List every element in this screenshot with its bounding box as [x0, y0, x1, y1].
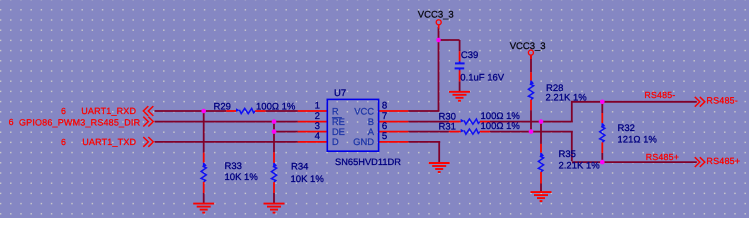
svg-text:R33: R33: [225, 161, 242, 172]
wire R32 bottom lead: [601, 153, 603, 162]
label R28: [546, 83, 563, 94]
capacitor C39: [455, 51, 465, 81]
pin name A: [368, 126, 375, 137]
port GPIO86_PWM3_RS485_DIR chevrons: [143, 117, 153, 127]
ground (below R34): [264, 204, 285, 213]
ground (below R35): [531, 192, 552, 201]
pin 4 lead: [298, 141, 328, 143]
value 100Ω 1% (R31): [481, 121, 521, 132]
resistor R29: [226, 108, 265, 113]
label U7: [334, 88, 346, 99]
wire row2 to R34: [273, 122, 275, 153]
svg-text:2.21K 1%: 2.21K 1%: [546, 93, 588, 104]
svg-text:R35: R35: [559, 149, 576, 160]
pin name R: [332, 106, 339, 117]
svg-text:GPIO86_PWM3_RS485_DIR: GPIO86_PWM3_RS485_DIR: [19, 117, 141, 127]
pin number 4: [315, 131, 321, 142]
wire VCC junction to C39: [438, 40, 460, 51]
svg-text:RS485+: RS485+: [646, 152, 679, 162]
port GPIO86_PWM3_RS485_DIR text: [19, 117, 141, 127]
wire C39 to ground: [459, 81, 461, 91]
power VCC3_3 (1) circle: [436, 20, 441, 29]
power VCC3_3 (2) circle: [528, 50, 533, 59]
value 100Ω 1% (R30): [481, 111, 521, 122]
label R31: [439, 122, 456, 133]
port UART1_RXD text: [81, 106, 136, 116]
wire R35 to ground: [540, 184, 542, 192]
svg-text:R31: R31: [439, 122, 456, 133]
value 121Ω 1% (R32): [618, 134, 658, 145]
label SN65HVD11DR: [335, 157, 401, 167]
svg-text:10K 1%: 10K 1%: [225, 172, 259, 183]
junction RS485-/R32: [600, 100, 605, 105]
svg-text:UART1_RXD: UART1_RXD: [81, 106, 136, 116]
junction row2/R34: [272, 119, 277, 124]
junction RS485+/R32: [600, 160, 605, 165]
pin 8 lead: [379, 110, 409, 112]
wire R34 to ground: [273, 193, 275, 203]
value 2.21K 1% (R28): [546, 93, 588, 104]
svg-text:R29: R29: [214, 101, 231, 112]
port RS485- text: [706, 96, 738, 106]
net label RS485-: [644, 90, 675, 100]
value 10K 1% (R33): [225, 172, 259, 183]
svg-text:C39: C39: [461, 50, 478, 61]
pin 3 lead: [298, 131, 328, 133]
resistor R28: [528, 72, 534, 110]
svg-text:5: 5: [382, 131, 387, 142]
svg-text:RS485-: RS485-: [706, 96, 738, 106]
power VCC3_3 (1) label: [418, 10, 454, 21]
wire pin6 to R31: [408, 131, 449, 133]
svg-text:6: 6: [61, 106, 66, 116]
svg-text:4: 4: [315, 131, 321, 142]
svg-text:VCC3_3: VCC3_3: [510, 41, 546, 52]
power VCC3_3 (2) label: [510, 41, 546, 52]
ground (below R33): [193, 204, 214, 213]
svg-text:0.1uF 16V: 0.1uF 16V: [460, 72, 504, 83]
wire pin5 to ground: [408, 142, 440, 163]
wire R32 top lead: [601, 102, 603, 113]
label R30: [439, 112, 456, 123]
wire row2 to R35: [540, 122, 542, 144]
svg-text:RS485+: RS485+: [706, 156, 740, 166]
svg-text:GND: GND: [353, 136, 374, 147]
pin 7 lead: [379, 121, 409, 123]
port UART1_TXD chevrons: [143, 137, 153, 147]
pin 2 lead: [298, 121, 328, 123]
wire R31 to jog (row3): [490, 131, 573, 133]
resistor R30: [449, 119, 490, 124]
pin number 3: [315, 121, 320, 132]
wire RS485_DIR net (row 2): [155, 121, 298, 123]
value 2.21K 1% (R35): [559, 160, 601, 171]
wire VCC3_3 vertical rail: [438, 27, 440, 111]
svg-text:SN65HVD11DR: SN65HVD11DR: [335, 157, 401, 167]
resistor R31: [449, 129, 490, 134]
junction row1/R33: [201, 109, 206, 114]
resistor R32: [600, 113, 606, 153]
wire pin7 to R30: [408, 121, 449, 123]
svg-text:2.21K 1%: 2.21K 1%: [559, 160, 601, 171]
port RS485+ chevrons: [695, 157, 705, 167]
svg-text:VCC3_3: VCC3_3: [418, 10, 454, 21]
port RS485- chevrons: [695, 97, 705, 107]
pin number 8: [382, 101, 387, 112]
wire DE net (row 3): [274, 131, 298, 133]
pin name D: [332, 136, 339, 147]
junction R28/row3: [529, 129, 534, 134]
port UART1_TXD text: [82, 137, 136, 147]
pin 6 lead: [379, 131, 409, 133]
value 100Ω 1% (R29): [256, 101, 296, 112]
label R33: [225, 161, 242, 172]
wire jog up to RS485- line: [571, 101, 573, 122]
wire VCC3_3(2) to R28: [530, 55, 532, 72]
label R34: [291, 162, 308, 173]
wire UART1_RXD net (row 1): [155, 110, 298, 112]
pin name DE: [332, 126, 345, 137]
junction row3 start: [272, 129, 277, 134]
pin name GND: [353, 136, 374, 147]
svg-text:R34: R34: [291, 162, 308, 173]
wire R30 to jog (row2): [490, 121, 573, 123]
pin number 1: [315, 101, 320, 112]
svg-text:6: 6: [9, 117, 14, 127]
svg-text:U7: U7: [334, 88, 346, 99]
pin number 2: [315, 111, 320, 122]
port UART1_RXD sheet ref 6: [61, 106, 66, 116]
value 10K 1% (R34): [291, 174, 325, 185]
resistor R34: [271, 152, 277, 193]
wire row1 to R33: [203, 111, 205, 153]
port UART1_RXD chevrons: [143, 106, 153, 116]
junction VCC/C39: [436, 38, 441, 43]
label R32: [618, 123, 635, 134]
svg-text:121Ω 1%: 121Ω 1%: [618, 134, 658, 145]
svg-text:R32: R32: [618, 123, 635, 134]
port RS485+ text: [706, 156, 740, 166]
pin number 6: [382, 121, 387, 132]
svg-text:D: D: [332, 136, 339, 147]
pin number 5: [382, 131, 387, 142]
svg-text:100Ω 1%: 100Ω 1%: [256, 101, 296, 112]
wire UART1_TXD net (row 4): [155, 141, 298, 143]
svg-text:UART1_TXD: UART1_TXD: [82, 137, 136, 147]
junction R35/row2: [539, 119, 544, 124]
wire RS485- horizontal: [572, 101, 697, 103]
svg-text:6: 6: [61, 137, 66, 147]
svg-text:10K 1%: 10K 1%: [291, 174, 325, 185]
pin number 7: [382, 111, 387, 122]
wire pin8 to VCC rail: [408, 110, 439, 112]
wire jog down to RS485+ line: [571, 132, 573, 162]
wire R33 to ground: [203, 193, 205, 203]
wire R28 to row3: [530, 110, 532, 131]
pin 1 lead: [298, 110, 328, 112]
net label RS485+: [646, 152, 679, 162]
value 0.1uF 16V (C39): [460, 72, 504, 83]
svg-text:RS485-: RS485-: [644, 90, 675, 100]
ground (below pin5): [429, 163, 450, 172]
pin name B: [368, 116, 374, 127]
ground (below C39): [449, 92, 470, 101]
pin name VCC: [354, 106, 374, 117]
label R35: [559, 149, 576, 160]
resistor R33: [201, 153, 207, 193]
op-amp U7 box: [327, 99, 378, 151]
resistor R35: [538, 144, 544, 184]
label R29: [214, 101, 231, 112]
svg-text:100Ω 1%: 100Ω 1%: [481, 121, 521, 132]
label C39: [461, 50, 478, 61]
pin 5 lead: [379, 141, 409, 143]
wire RS485+ horizontal: [572, 161, 697, 163]
pin name RE (with overline): [332, 116, 345, 127]
port GPIO86_PWM3_RS485_DIR sheet ref 6: [9, 117, 14, 127]
port UART1_TXD sheet ref 6: [61, 137, 66, 147]
